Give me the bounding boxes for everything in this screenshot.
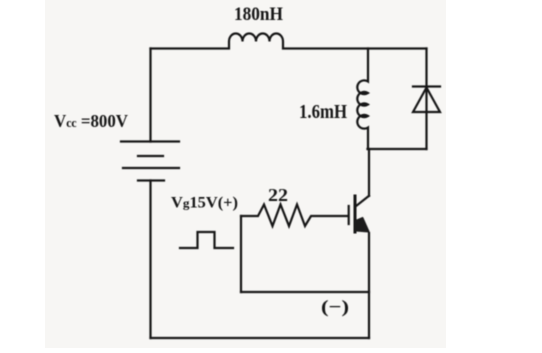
wire collector vertical xyxy=(368,149,370,196)
svg-text:(−): (−) xyxy=(321,297,349,318)
svg-text:180nH: 180nH xyxy=(234,5,284,25)
wire left vertical lower xyxy=(149,181,151,339)
battery Vcc plate long top xyxy=(121,140,179,142)
inductor L1 180nH with top wire xyxy=(151,34,427,49)
scan paper background xyxy=(45,0,446,348)
diode D1 vertical lead through xyxy=(425,49,427,150)
diode D1 triangle xyxy=(413,88,440,113)
wire coil-diode bottom horizontal xyxy=(368,148,427,150)
diode D1 cathode bar xyxy=(413,85,440,87)
svg-text:22: 22 xyxy=(268,185,288,205)
svg-text:Vcc =800V: Vcc =800V xyxy=(54,111,128,131)
wire gate return horizontal xyxy=(241,291,369,293)
transistor Q1 emitter arrow xyxy=(356,218,369,232)
svg-text:Vg15V(+): Vg15V(+) xyxy=(171,195,238,212)
wire emitter vertical xyxy=(368,233,370,338)
transistor Q1 collector diagonal xyxy=(356,196,370,207)
wire left vertical upper xyxy=(149,49,151,142)
pulse waveform symbol xyxy=(180,232,233,248)
battery Vcc plate long xyxy=(123,167,179,169)
transistor Q1 gate bar xyxy=(348,206,350,224)
svg-text:1.6mH: 1.6mH xyxy=(299,102,347,123)
battery Vcc plate short xyxy=(138,155,163,157)
battery Vcc plate short bottom xyxy=(138,179,164,181)
wire bottom xyxy=(151,337,370,339)
transistor Q1 body bar xyxy=(354,196,357,232)
inductor L2 1.6mH vertical coil xyxy=(357,49,368,150)
wire gate loop left vertical xyxy=(240,216,242,292)
resistor R1 22 with leads xyxy=(241,205,347,227)
